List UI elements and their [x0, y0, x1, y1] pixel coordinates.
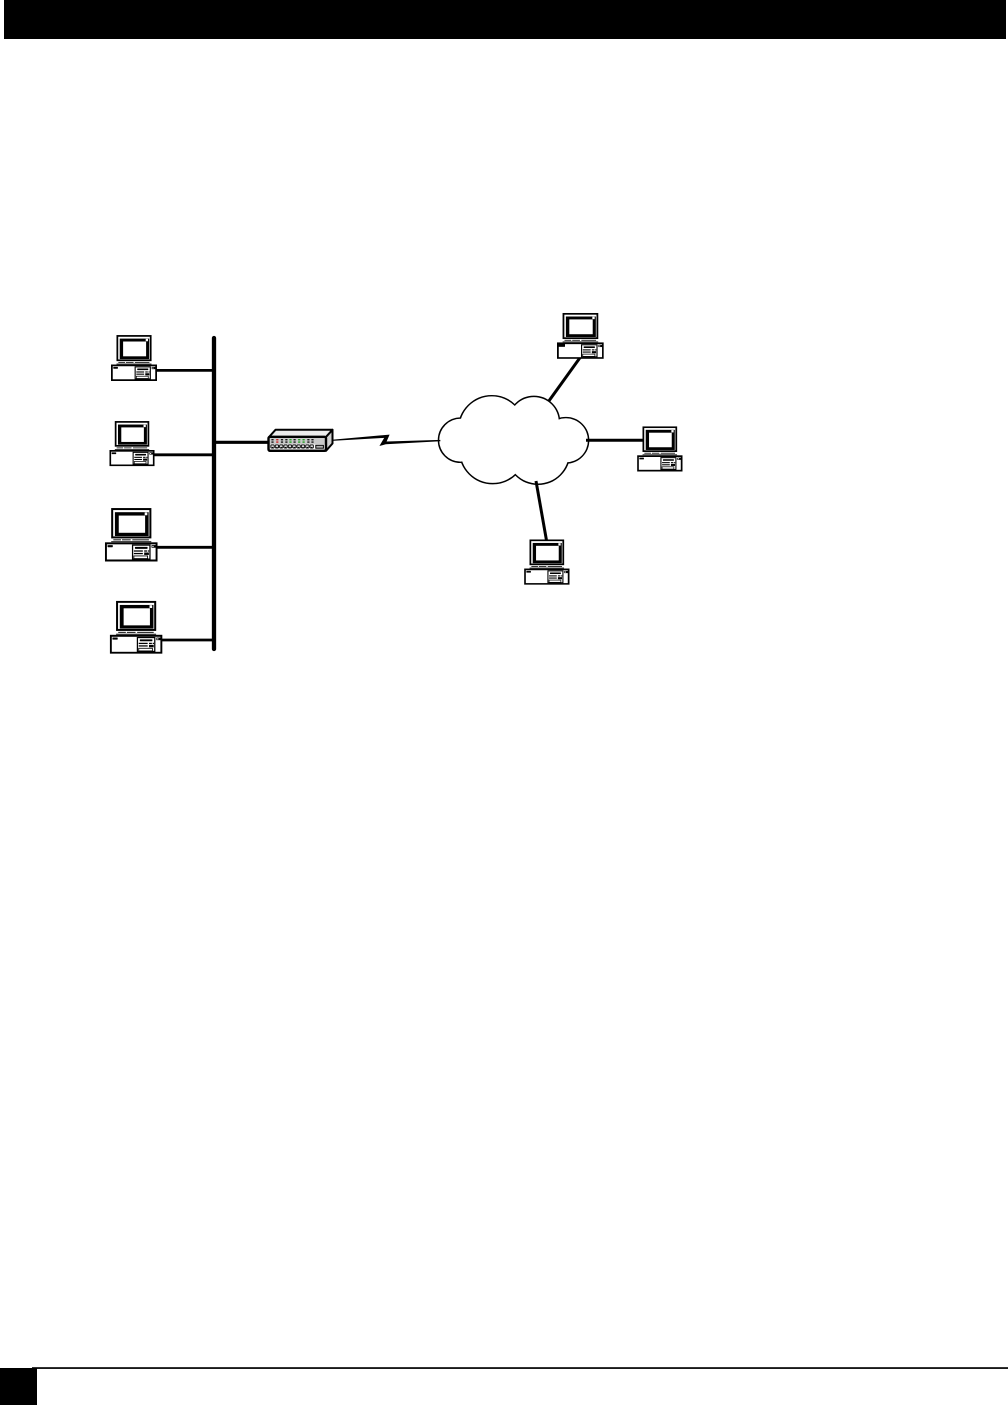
wire PC1 to bus: [150, 369, 214, 372]
workstation PC3: [106, 509, 157, 560]
wire PC4 to bus: [157, 639, 214, 642]
wire cloud to PC5: [549, 357, 581, 402]
wire cloud to PC7: [536, 481, 547, 541]
workstation PC7: [525, 540, 569, 584]
wire PC2 to bus: [151, 453, 214, 456]
internet cloud: [439, 396, 588, 483]
page number tab: [0, 1368, 37, 1405]
wire cloud to PC6: [586, 439, 643, 442]
workstation PC1: [112, 336, 156, 380]
wire bus to hub: [214, 441, 272, 444]
workstation PC6: [638, 427, 682, 470]
workstation PC4: [111, 602, 162, 653]
hub: [269, 430, 333, 451]
workstation PC5: [558, 314, 603, 358]
wire PC3 to bus: [152, 546, 214, 549]
ethernet bus backbone: [212, 338, 216, 649]
footer rule: [32, 1367, 1008, 1369]
header bar: [4, 0, 1006, 39]
comm link lightning bolt: [332, 435, 441, 446]
workstation PC2: [110, 422, 153, 465]
